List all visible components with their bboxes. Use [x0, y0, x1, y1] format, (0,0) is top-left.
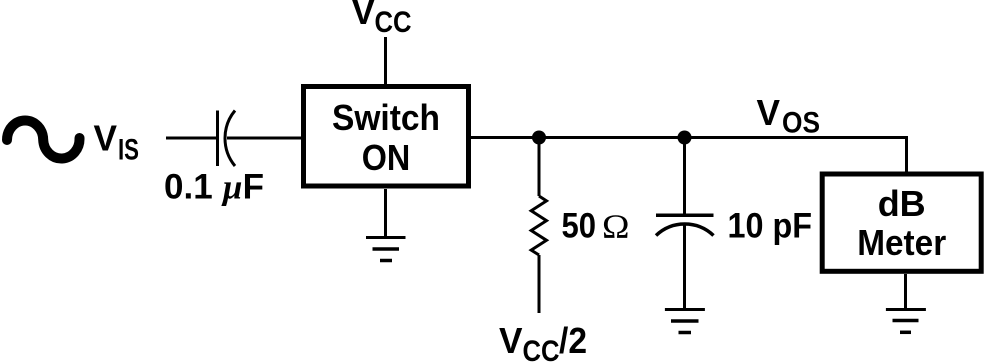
block dB Meter [822, 174, 981, 271]
svg-text:Ω: Ω [602, 209, 630, 246]
svg-text:Switch: Switch [332, 97, 440, 138]
wire VCC to switch box top [384, 37, 387, 84]
label VCC [352, 0, 412, 39]
node junction 1 [532, 131, 546, 145]
capacitor C2 10pF top plate [656, 214, 714, 218]
label 50 ohm [562, 207, 630, 246]
node junction 2 [678, 131, 692, 145]
wire capacitor C2 top lead [683, 138, 686, 216]
svg-text:IS: IS [118, 134, 139, 167]
wire resistor bottom lead [538, 255, 541, 313]
svg-text:V: V [352, 0, 376, 32]
AC source VIS sine symbol [7, 121, 80, 159]
svg-text:V: V [757, 92, 781, 133]
svg-text:CC: CC [523, 335, 560, 362]
svg-text:CC: CC [375, 6, 412, 39]
label VCC/2 [499, 320, 587, 362]
ground under dB meter [886, 310, 926, 333]
block Switch ON [304, 87, 469, 187]
wire capacitor to switch box [227, 137, 301, 140]
ground under capacitor C2 [665, 310, 705, 333]
label VOS [757, 92, 821, 140]
capacitor C1 0.1uF left plate [216, 111, 219, 167]
svg-text:V: V [94, 118, 118, 159]
wire resistor top lead [538, 138, 541, 197]
resistor 50 ohm zigzag [531, 196, 546, 255]
capacitor C1 0.1uF right curved plate [225, 111, 235, 167]
svg-text:OS: OS [782, 107, 820, 140]
svg-text:50: 50 [562, 207, 597, 246]
wire switch box bottom to ground [384, 189, 387, 238]
svg-text:Meter: Meter [857, 222, 946, 263]
wire capacitor C2 bottom lead [683, 224, 686, 310]
svg-text:dB: dB [878, 183, 926, 224]
svg-text:/2: /2 [559, 320, 587, 361]
wire dB meter bottom to ground [904, 274, 907, 310]
svg-text:ON: ON [362, 137, 411, 178]
wire down into dB meter [905, 136, 908, 172]
capacitor C2 10pF bottom curved plate [656, 224, 714, 235]
label VIS [94, 118, 140, 167]
wire switch output to dB meter corner [471, 136, 907, 139]
svg-text:10 pF: 10 pF [728, 207, 813, 246]
svg-text:V: V [499, 320, 523, 361]
wire input left segment [166, 137, 218, 140]
svg-text:0.1 µF: 0.1 µF [164, 168, 264, 207]
ground under switch [366, 238, 406, 261]
